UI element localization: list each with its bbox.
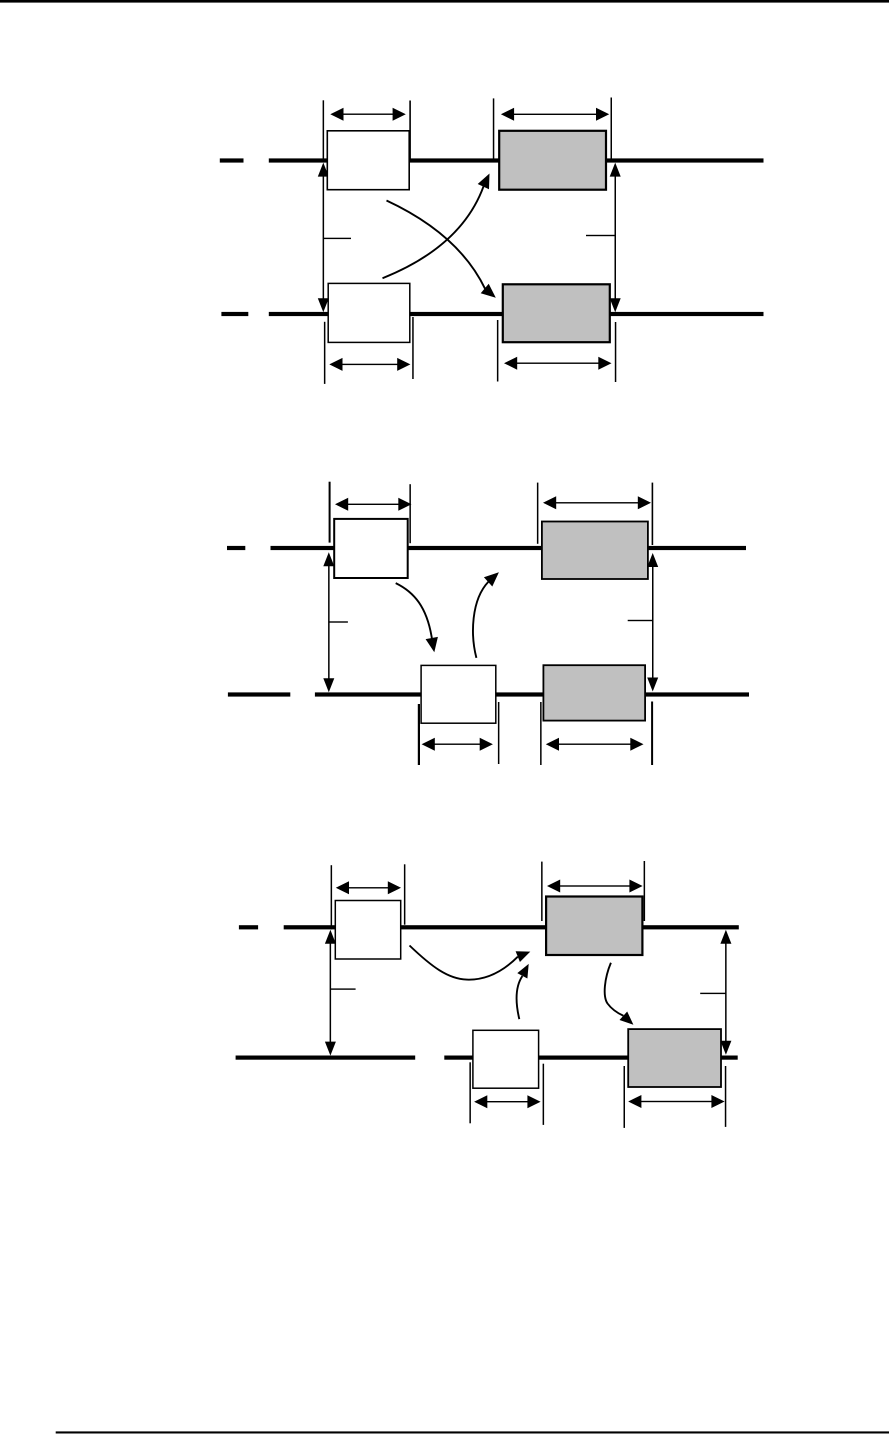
page header bar bbox=[0, 0, 889, 3]
fig3 grey slot B right tick bbox=[725, 1066, 727, 1127]
fig3 right offset arrow between timelines bbox=[720, 930, 731, 1055]
fig1 crossing arrow A-to-B bbox=[387, 201, 496, 298]
fig1 white slot B left tick bbox=[324, 322, 326, 384]
fig2 width arrow under grey slot B bbox=[546, 738, 644, 751]
fig3 transfer arrow grey A to grey B bbox=[605, 963, 634, 1025]
fig1 grey slot box A bbox=[499, 131, 606, 190]
fig2 width arrow over grey slot A bbox=[543, 496, 651, 509]
fig1 white A right boundary line bbox=[409, 101, 411, 161]
fig1 right offset arrow tick bbox=[586, 235, 615, 236]
fig1 left slot boundary line bbox=[323, 100, 325, 160]
fig2 left slot boundary line bbox=[329, 482, 331, 543]
fig2 width arrow over white slot A bbox=[335, 498, 412, 511]
fig1 white slot B right tick bbox=[412, 317, 414, 379]
fig3 transfer arrow white A to grey A bbox=[410, 946, 531, 980]
fig3 width arrow under white slot B bbox=[474, 1095, 540, 1108]
fig2 left offset arrow tick bbox=[329, 621, 348, 622]
fig2 grey slot B right tick bbox=[651, 702, 653, 766]
fig3 white slot box A bbox=[335, 901, 400, 960]
fig1 timeline B bbox=[269, 312, 764, 316]
fig2 width arrow under white slot B bbox=[422, 738, 493, 751]
fig3 grey A left boundary line bbox=[541, 862, 543, 921]
fig3 transfer arrow white B up to grey A bbox=[517, 964, 529, 1019]
fig1 right offset arrow between timelines bbox=[610, 163, 621, 313]
fig3 left offset arrow between timelines bbox=[325, 930, 336, 1056]
fig3 grey slot box B bbox=[628, 1029, 721, 1087]
fig2 right offset arrow tick bbox=[628, 620, 653, 621]
fig3 timeline A leading dash bbox=[239, 925, 258, 929]
footer rule bbox=[56, 1431, 889, 1433]
fig2 right offset arrow between timelines bbox=[647, 553, 658, 692]
fig2 left offset arrow between timelines bbox=[323, 552, 334, 692]
fig2 up transfer arrow bbox=[473, 572, 499, 658]
fig1 timeline B leading dash bbox=[221, 312, 248, 316]
fig1 width arrow over grey slot A bbox=[501, 108, 609, 121]
fig2 grey slot B left tick bbox=[540, 702, 542, 765]
fig1 grey slot B right tick bbox=[615, 322, 617, 382]
fig3 width arrow under grey slot B bbox=[628, 1095, 724, 1108]
fig2 grey A left boundary line bbox=[537, 483, 539, 544]
fig1 timeline A bbox=[269, 158, 764, 162]
fig2 timeline A leading dash bbox=[227, 546, 245, 550]
fig2 white slot B left tick bbox=[418, 704, 420, 765]
fig3 white slot B right tick bbox=[543, 1064, 545, 1125]
fig3 white slot box B bbox=[473, 1030, 539, 1088]
fig2 grey A right boundary line bbox=[652, 483, 654, 545]
fig2 grey slot box B bbox=[543, 665, 645, 720]
fig2 white slot box B bbox=[421, 665, 496, 723]
fig1 left offset arrow tick bbox=[323, 238, 351, 239]
fig3 grey A right boundary line bbox=[644, 861, 646, 921]
fig3 right slot boundary line white A bbox=[404, 864, 406, 924]
fig1 grey A left boundary line bbox=[493, 98, 495, 160]
fig3 grey slot box A bbox=[546, 897, 642, 956]
fig3 white slot B left tick bbox=[469, 1062, 471, 1123]
fig3 timeline B right segment bbox=[444, 1056, 737, 1060]
fig1 white slot box B bbox=[328, 283, 410, 342]
fig1 left offset arrow between timelines bbox=[318, 163, 329, 313]
fig3 timeline A bbox=[284, 925, 739, 929]
fig1 width arrow over white slot A bbox=[330, 108, 406, 121]
fig3 right offset arrow tick bbox=[700, 993, 726, 994]
fig2 right slot boundary line white A bbox=[409, 484, 411, 543]
fig2 down transfer arrow bbox=[396, 583, 438, 652]
fig1 white slot box A bbox=[327, 131, 409, 190]
fig1 timeline A leading dash bbox=[220, 158, 244, 162]
fig2 timeline B bbox=[315, 692, 749, 696]
fig2 white slot B right tick bbox=[498, 702, 500, 764]
fig3 timeline B left segment bbox=[236, 1056, 416, 1060]
fig3 width arrow over grey slot A bbox=[547, 880, 643, 893]
fig1 crossing arrow B-to-A bbox=[383, 174, 490, 279]
fig2 white slot box A bbox=[334, 519, 408, 578]
fig2 grey slot box A bbox=[542, 522, 648, 580]
fig1 width arrow under grey slot B bbox=[504, 357, 612, 370]
fig3 width arrow over white slot A bbox=[336, 881, 401, 894]
fig1 grey slot B left tick bbox=[497, 320, 499, 382]
fig2 timeline B leading dash bbox=[228, 692, 290, 696]
fig3 grey slot B left tick bbox=[624, 1066, 626, 1128]
fig2 timeline A bbox=[271, 546, 747, 550]
fig3 left offset arrow tick bbox=[330, 988, 355, 989]
fig1 width arrow under white slot B bbox=[329, 358, 410, 371]
fig1 grey A right boundary line bbox=[611, 98, 613, 161]
fig3 left slot boundary line bbox=[331, 865, 333, 929]
fig1 grey slot box B bbox=[503, 284, 610, 342]
